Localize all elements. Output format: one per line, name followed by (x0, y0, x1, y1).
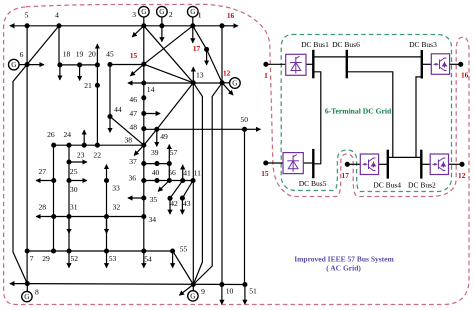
svg-text:9: 9 (201, 287, 205, 296)
wire row 48-49-50 (144, 128, 245, 130)
svg-text:26: 26 (47, 130, 55, 139)
node bus11 (190, 178, 195, 183)
wire diagonal 3-13 (144, 26, 194, 83)
generator G1 (188, 6, 199, 17)
converter U4 (VSC IGBT, DC Bus4) (360, 154, 378, 175)
svg-text:DC Bus4: DC Bus4 (373, 180, 401, 189)
wire column 3-15-14-46-47-48-38-37-36-35-34-54 (143, 26, 145, 251)
converter U1 (LCC thyristor, DC Bus1) (286, 54, 306, 75)
load arrow bus10 (221, 285, 223, 305)
svg-text:57: 57 (170, 148, 178, 157)
load arrow bus27 (36, 180, 54, 182)
node bus40 (154, 178, 159, 183)
wire node1 to converter U1 (266, 63, 286, 65)
load arrow bus54 (143, 251, 145, 268)
DC grid dashed boundary (green) (281, 35, 451, 192)
svg-text:30: 30 (70, 185, 78, 194)
node ac bus16 dc side (458, 62, 463, 67)
node bus46 (141, 95, 146, 100)
svg-text:G: G (24, 293, 29, 301)
node bus17 (204, 47, 209, 52)
load arrow bus15 diagonal (130, 64, 143, 76)
svg-text:31: 31 (70, 202, 78, 211)
DC Bus1 bar (312, 50, 314, 79)
load arrow bus56 diagonal (158, 181, 169, 192)
DC Bus5 bar (312, 149, 314, 178)
node bus1 (190, 23, 195, 28)
svg-text:7: 7 (30, 254, 34, 263)
svg-text:48: 48 (129, 123, 137, 132)
generator G12 (230, 78, 241, 89)
node bus45 (107, 62, 112, 67)
node bus24 (66, 143, 71, 148)
svg-text:G: G (141, 8, 146, 16)
svg-text:Improved IEEE 57 Bus System: Improved IEEE 57 Bus System (294, 254, 394, 263)
svg-text:41: 41 (183, 168, 191, 177)
node bus9 (191, 282, 196, 287)
node bus47 (141, 111, 146, 116)
node ac bus17 dc side (345, 162, 350, 167)
svg-text:20: 20 (88, 50, 96, 59)
svg-text:17: 17 (342, 171, 350, 180)
svg-text:G: G (11, 61, 16, 69)
node bus4 (56, 23, 61, 28)
wire column 50-51 (244, 129, 246, 284)
svg-text:39: 39 (151, 148, 159, 157)
load arrow bus19 (79, 65, 81, 81)
dc line Bus4-Bus2 (388, 156, 422, 158)
svg-text:37: 37 (129, 157, 137, 166)
wire U1 to DC Bus1 bar (306, 63, 313, 65)
svg-text:23: 23 (77, 150, 85, 159)
wire DC Bus2 bar to converter U2 (421, 163, 430, 165)
svg-text:4: 4 (55, 11, 59, 20)
svg-text:15: 15 (261, 169, 269, 178)
node bus20 (95, 62, 100, 67)
node bus10 (219, 282, 224, 287)
svg-text:16: 16 (461, 71, 469, 80)
load arrow bus55 (172, 251, 174, 268)
wire row 37-39-57 (144, 163, 170, 165)
node bus13 (191, 80, 196, 85)
load arrow bus43 (181, 198, 183, 214)
svg-text:55: 55 (180, 244, 188, 253)
node bus27 (51, 178, 56, 183)
wire bus16 right arrow (222, 25, 238, 27)
svg-text:11: 11 (194, 168, 202, 177)
wire bus6 right arrow (27, 64, 44, 66)
svg-text:54: 54 (144, 255, 152, 264)
svg-text:3: 3 (132, 10, 136, 19)
node bus26 (51, 143, 56, 148)
DC Bus3 bar (421, 50, 423, 79)
node bus3 (141, 23, 146, 28)
svg-text:38: 38 (125, 135, 133, 144)
node ac bus1 dc side (263, 62, 268, 67)
node bus54 (141, 248, 146, 253)
load arrow bus31 (68, 217, 70, 234)
load arrow bus47 (144, 113, 160, 115)
node bus14 (141, 80, 146, 85)
svg-text:51: 51 (249, 287, 257, 296)
DC Bus4 bar (387, 150, 389, 179)
load arrow bus35 (128, 197, 144, 199)
svg-text:17: 17 (193, 44, 201, 53)
svg-text:40: 40 (152, 168, 160, 177)
load arrow bus32 (106, 217, 108, 234)
node bus29 (51, 248, 56, 253)
node bus43 (180, 196, 185, 201)
converter U5 (LCC thyristor, DC Bus5) (283, 153, 303, 174)
wire column 33-32-53 (106, 181, 108, 252)
load arrow bus3 diagonal (132, 26, 144, 37)
wire row 8-9-10-51 (27, 283, 245, 286)
node bus35 (141, 195, 146, 200)
node bus53 (104, 248, 109, 253)
svg-text:21: 21 (84, 81, 92, 90)
load arrow bus53 (106, 251, 108, 268)
wire diagonal 55-9 (173, 251, 194, 285)
wire row 28-31-32-34 (54, 216, 144, 218)
svg-text:2: 2 (169, 10, 173, 19)
load arrow bus18 (59, 65, 61, 80)
wire diagonal 13-49-38 (144, 83, 194, 145)
svg-text:56: 56 (168, 168, 176, 177)
svg-text:45: 45 (106, 50, 114, 59)
node bus37 (141, 161, 146, 166)
node bus25 (66, 159, 71, 164)
svg-text:13: 13 (196, 71, 204, 80)
wire G2 (161, 17, 163, 26)
load arrow bus30 (69, 180, 87, 182)
svg-text:( AC Grid): ( AC Grid) (326, 264, 361, 273)
wire diagonal 44-38 (110, 117, 144, 146)
wire row 26-24-23-22-38 (54, 144, 144, 146)
svg-text:22: 22 (93, 150, 101, 159)
load arrow bus20 up (96, 44, 98, 65)
node bus32 (104, 214, 109, 219)
node bus56 (167, 178, 172, 183)
svg-text:52: 52 (71, 254, 79, 263)
svg-text:27: 27 (39, 167, 47, 176)
svg-text:1: 1 (198, 10, 202, 19)
load arrow bus25 (69, 161, 87, 163)
svg-text:53: 53 (109, 254, 117, 263)
node bus28 (51, 214, 56, 219)
wire G9 (192, 285, 194, 291)
wire column 26-27-28-29 (53, 145, 55, 251)
wire column 20-21-22 (96, 65, 98, 145)
load arrow bus1 (192, 26, 194, 43)
node bus41 (180, 178, 185, 183)
node bus5 (25, 23, 30, 28)
wire row 7-29-52-53-54-55 (27, 250, 172, 252)
node bus21 (95, 83, 100, 88)
wire 14-13-12 (144, 82, 222, 84)
node bus57 (167, 161, 172, 166)
svg-text:32: 32 (113, 202, 121, 211)
wire 45-44 (109, 65, 111, 117)
wire 57-56 (168, 164, 170, 181)
svg-text:24: 24 (64, 130, 72, 139)
wire G1 (192, 17, 194, 26)
node bus36 (141, 178, 146, 183)
wire diagonal 1-15 (144, 26, 193, 64)
node bus18 (57, 62, 62, 67)
svg-text:G: G (190, 292, 195, 300)
svg-text:8: 8 (35, 288, 39, 297)
node bus31 (66, 214, 71, 219)
load arrow bus42 (169, 198, 171, 214)
load arrow bus38 diagonal (134, 145, 144, 155)
svg-text:25: 25 (70, 167, 78, 176)
svg-text:43: 43 (183, 199, 191, 208)
wire bus50 right arrow (245, 128, 261, 130)
svg-text:5: 5 (25, 11, 29, 20)
node bus33 (104, 178, 109, 183)
svg-text:G: G (159, 8, 164, 16)
generator G8 (22, 291, 32, 301)
wire U5 to DC Bus5 bar (303, 162, 313, 164)
node bus23 (82, 143, 87, 148)
svg-text:42: 42 (170, 199, 178, 208)
node bus19 (77, 62, 82, 67)
wire fan 13 to 9 left branch (193, 83, 202, 285)
wire G8 (26, 284, 28, 292)
svg-text:15: 15 (130, 51, 138, 60)
svg-text:19: 19 (76, 50, 84, 59)
svg-text:18: 18 (63, 50, 71, 59)
load arrow bus57 up (168, 145, 170, 164)
generator G3 (139, 6, 150, 17)
node bus2 (159, 23, 164, 28)
svg-text:G: G (190, 8, 195, 16)
svg-text:33: 33 (112, 184, 120, 193)
svg-text:29: 29 (42, 254, 50, 263)
converter U3 (VSC IGBT, DC Bus3) (431, 54, 449, 75)
wire diagonal 41-42 (170, 181, 183, 199)
node bus12 (220, 80, 225, 85)
wire bus8 left arrow (10, 283, 27, 285)
generator G9 (188, 291, 198, 301)
node bus55 (170, 248, 175, 253)
wire G6 (19, 64, 27, 66)
dc line Bus1 to Bus5 (313, 72, 321, 164)
svg-text:34: 34 (149, 215, 157, 224)
node bus51 (242, 282, 247, 287)
svg-text:G: G (232, 80, 237, 88)
load arrow bus2 (161, 26, 163, 42)
wire U3 to node16 (450, 63, 461, 65)
load arrow bus17 (206, 49, 208, 65)
node bus38 (141, 143, 146, 148)
node bus8 (25, 281, 30, 286)
wire fan 12 to 9 branch (193, 83, 222, 285)
node bus44 (107, 114, 112, 119)
wire G3 (143, 17, 145, 26)
node ac bus12 dc side (459, 162, 464, 167)
node ac bus15 dc side (263, 160, 268, 165)
node bus50 (242, 127, 247, 132)
svg-text:16: 16 (227, 11, 235, 20)
load arrow bus28 (36, 216, 54, 218)
dc line Bus6 to Bus4 (347, 72, 393, 158)
node bus6 (25, 62, 30, 67)
node bus16 (219, 23, 224, 28)
svg-text:DC Bus6: DC Bus6 (332, 40, 360, 49)
wire 45-15 (110, 64, 144, 66)
node bus42 (167, 196, 172, 201)
DC Bus2 bar (420, 150, 422, 179)
wire node15 to converter U5 (266, 162, 283, 164)
wire row 36-40-56-41-11 (144, 180, 193, 182)
svg-text:DC Bus2: DC Bus2 (408, 180, 436, 189)
node bus48 (141, 126, 146, 131)
svg-text:28: 28 (39, 202, 47, 211)
svg-text:6-Terminal DC Grid: 6-Terminal DC Grid (325, 106, 392, 115)
wire column 24-25-30-31-52 (68, 145, 70, 251)
converter U2 (VSC IGBT, DC Bus2) (430, 154, 448, 175)
node bus30 (66, 178, 71, 183)
svg-text:6: 6 (20, 50, 24, 59)
load arrow bus51 (244, 285, 246, 305)
load arrow bus49 (156, 129, 158, 146)
generator G6 (9, 59, 20, 70)
wire 4-18 (58, 26, 60, 65)
wire diagonal 15-13 (144, 64, 194, 83)
load arrow bus13 up (192, 67, 194, 83)
load arrow bus23 up (83, 130, 85, 145)
svg-text:36: 36 (129, 174, 137, 183)
dc line Bus1-Bus6-Bus3 (313, 56, 422, 58)
svg-text:10: 10 (226, 287, 234, 296)
svg-text:44: 44 (114, 105, 122, 114)
wire row 14-13-12 with left arrow (128, 82, 144, 84)
node bus34 (141, 214, 146, 219)
wire column 13-11-9 (192, 83, 194, 285)
wire top row buses 5-4-3-2-1-16 (10, 25, 222, 27)
load arrow bus12 diagonal (222, 83, 233, 95)
wire column 5-6-7-8 (26, 26, 28, 284)
svg-text:DC Bus1: DC Bus1 (301, 40, 329, 49)
wire 1-17-12 (193, 26, 222, 83)
wire column 16-12-10 (221, 26, 223, 285)
svg-text:DC Bus3: DC Bus3 (409, 40, 437, 49)
node bus15 (141, 62, 146, 67)
node bus39 (154, 161, 159, 166)
svg-text:50: 50 (240, 115, 248, 124)
wire G12 (222, 82, 229, 84)
svg-text:1: 1 (264, 71, 268, 80)
load arrow bus33 up (106, 165, 108, 181)
svg-text:DC Bus5: DC Bus5 (299, 179, 327, 188)
wire diagonal 4-6 then down to 8 (13, 26, 59, 284)
wire DC Bus3 bar to converter U3 (422, 63, 432, 65)
svg-text:47: 47 (129, 109, 137, 118)
svg-text:49: 49 (160, 132, 168, 141)
generator G2 (157, 6, 168, 17)
svg-text:12: 12 (223, 69, 231, 78)
svg-text:12: 12 (458, 171, 466, 180)
wire node17 to converter U4 (347, 163, 360, 165)
wire U2 to node12 (449, 163, 463, 165)
load arrow bus41 up (182, 165, 184, 181)
svg-text:14: 14 (147, 85, 155, 94)
node bus22 (95, 143, 100, 148)
wire U4 to DC Bus4 bar (379, 163, 388, 165)
node bus7 (25, 248, 30, 253)
load arrow bus9 diagonal (179, 285, 193, 296)
node bus49 (154, 127, 159, 132)
wire row 18-19-20 (60, 64, 98, 66)
DC Bus6 bar (346, 50, 348, 79)
node bus52 (66, 248, 71, 253)
svg-text:35: 35 (150, 195, 158, 204)
dc line Bus3 to Bus2 (416, 77, 422, 157)
load arrow bus52 (68, 251, 70, 268)
wire diagonal 11-43 (182, 181, 193, 199)
svg-text:46: 46 (129, 95, 137, 104)
load arrow bus44 (109, 117, 111, 133)
